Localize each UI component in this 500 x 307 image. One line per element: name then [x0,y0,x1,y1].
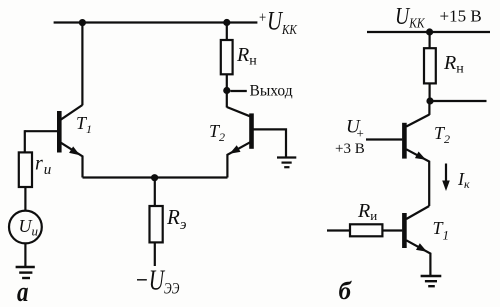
svg-text:а: а [17,276,29,307]
label r_i value [35,153,51,179]
ground symbol at T2 base [277,158,296,168]
node junction emitter rail / Re [151,174,158,181]
wire Rn down to output node (circuit b) [429,83,431,101]
transistor T2b emitter arrow (npn) [415,151,428,163]
label U+ base voltage [346,117,364,141]
svg-text:Выход: Выход [250,83,293,100]
label a (subfigure) [17,276,29,307]
transistor T2 collector diagonal [227,107,250,116]
node junction on +Ukk rail above T1 [79,19,86,26]
label Ukk (circuit b) [395,2,426,31]
wire Ri to T1b base [382,229,402,231]
transistor T1 emitter diagonal [61,143,83,178]
label Ri value [357,200,377,223]
transistor T2b emitter diagonal [406,149,429,206]
svg-text:б: б [339,278,353,305]
svg-text:+3 В: +3 В [335,141,365,157]
label U_i inside source [19,216,39,239]
label T1 (circuit a) [76,113,92,136]
wire source to ground [24,243,26,266]
transistor T2 emitter arrow (npn) [228,145,241,157]
wire T2b base lead [366,138,402,140]
resistor Ri body (horizontal) [350,224,382,236]
resistor r_i body [19,152,32,187]
node junction top rail (circuit b) [426,28,433,35]
transistor T2b base bar [402,123,407,159]
label b (subfigure) [339,278,353,305]
svg-text:+15 В: +15 В [440,7,482,26]
resistor Rn body (circuit a) [221,40,233,74]
transistor T1 emitter arrow (npn) [69,146,82,158]
transistor T1b emitter diagonal [406,240,430,275]
label T2 (circuit b) [434,123,450,146]
wire Rn to output node [226,74,228,90]
wire T1 collector vertical [81,23,83,106]
wire base lead into Ri [327,229,350,231]
wire rail down to Rn (circuit b) [429,32,431,48]
transistor T2 base bar [249,113,254,148]
label Rn value (circuit b) [443,52,464,77]
wire Re down to -Uee [154,242,156,266]
arrow Ik current annotation [445,164,447,188]
wire T2 base lead to ground [254,129,287,157]
wire top supply rail (circuit b) [367,31,490,33]
label T2 (circuit a) [209,121,225,144]
node output junction (circuit b) [426,97,433,104]
wire output stub right (circuit b) [430,100,487,102]
wire r_i to source [24,187,26,211]
label Re value [166,205,187,233]
wire junction down to Re [154,178,156,207]
label +Ukk supply (circuit a) [259,7,297,37]
wire T2 collector vertical (circuit b) [428,101,430,115]
transistor T2 emitter diagonal [227,142,250,177]
transistor T1 base bar [57,111,62,153]
wire top supply rail (circuit a) [54,21,258,23]
label Vyhod output [250,83,293,100]
label +3V [335,141,365,157]
label +15V supply [440,7,482,26]
wire T1 base lead [25,130,58,132]
transistor T2b collector diagonal [406,115,429,127]
node output junction [223,87,230,94]
label Rn value (circuit a) [236,44,257,69]
label T1 (circuit b) [433,218,450,243]
label Ik current [457,169,470,191]
wire from T1 base down to r_i [24,130,26,152]
resistor Rn body (circuit b) [424,48,436,83]
wire bottom emitter rail (circuit a) [83,176,228,178]
label -Uee supply [135,264,180,298]
ground symbol below T1b [421,276,442,286]
wire output stub [230,90,246,92]
wire T2 collector vertical [226,91,228,108]
transistor T1b collector diagonal [406,206,429,219]
transistor T1 collector diagonal [61,105,83,120]
transistor T1b emitter arrow (npn) [416,243,429,255]
wire +Ukk rail down to Rn [226,23,228,41]
source U_i circle [9,211,42,244]
svg-text:+: + [259,9,266,27]
node junction on +Ukk rail above Rn [223,19,230,26]
ground symbol below U_i [16,267,35,278]
resistor Re body [150,206,163,242]
transistor T1b base bar [402,213,407,248]
svg-text:+: + [357,126,364,141]
